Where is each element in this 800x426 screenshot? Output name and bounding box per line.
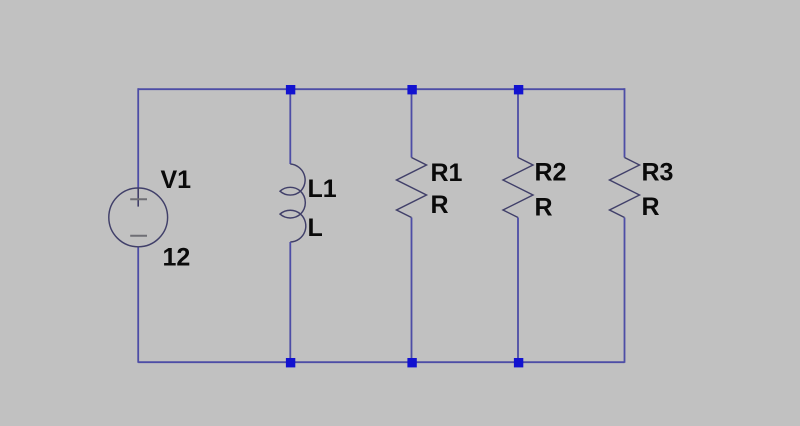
wire L1 top lead (289, 88, 291, 164)
wire R1 bottom lead (411, 218, 413, 363)
voltage source V1 (109, 188, 168, 247)
svg-text:R: R (642, 193, 660, 221)
svg-text:L1: L1 (308, 175, 337, 203)
resistor R3 (610, 158, 640, 218)
svg-text:V1: V1 (161, 166, 192, 194)
svg-text:R: R (535, 194, 553, 222)
wire top rail (138, 88, 624, 90)
resistor R1 (397, 158, 427, 218)
wire R3 bottom lead (624, 218, 626, 363)
junction top R2 (514, 85, 523, 94)
wire V1 top lead (137, 88, 139, 188)
svg-text:R3: R3 (642, 158, 674, 186)
wire L1 bottom lead (289, 242, 291, 363)
junction bottom L1 (286, 358, 295, 367)
wire R1 top lead (411, 88, 413, 157)
wire R2 top lead (517, 88, 519, 157)
svg-text:12: 12 (163, 243, 191, 271)
junction bottom R2 (514, 358, 523, 367)
svg-text:L: L (308, 214, 323, 242)
wire R2 bottom lead (517, 218, 519, 363)
wire V1 bottom lead (137, 247, 139, 363)
svg-text:R: R (431, 191, 449, 219)
junction top L1 (286, 85, 295, 94)
junction top R1 (407, 85, 416, 94)
svg-text:R1: R1 (431, 159, 463, 187)
svg-text:R2: R2 (535, 159, 567, 187)
wire bottom rail (138, 361, 624, 363)
resistor R2 (503, 158, 533, 218)
junction bottom R1 (407, 358, 416, 367)
wire R3 top lead (624, 88, 626, 157)
inductor L1 (280, 164, 306, 242)
